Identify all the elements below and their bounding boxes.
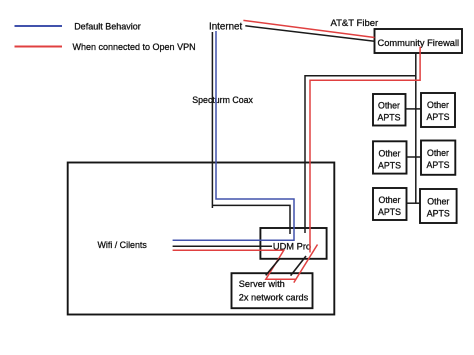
wire: red firewall to UDM/server vertical (310, 47, 420, 253)
box: Other APTS row2 right (421, 141, 455, 175)
wire: red diagonal server to firewall riser (294, 245, 318, 283)
legend line: When connected to Open VPN (red) (15, 46, 63, 48)
box: Other APTS row1 left (373, 94, 406, 126)
svg-text:Internet: Internet (209, 22, 243, 33)
house boundary rectangle (68, 163, 335, 315)
svg-text:Other: Other (427, 197, 449, 207)
wire: black firewall to Other APTS chain vertical (415, 53, 417, 203)
svg-text:Other: Other (378, 195, 400, 205)
wire: red VPN path WiFi clients to server to firewall diagonal (173, 250, 296, 279)
box U1: Community Firewall (375, 29, 463, 53)
svg-text:APTS: APTS (378, 113, 401, 123)
svg-text:APTS: APTS (427, 160, 450, 170)
wire: connector APTS row1 (406, 108, 422, 110)
svg-text:2x network cards: 2x network cards (239, 293, 309, 303)
svg-text:Other: Other (427, 100, 449, 110)
wire: black diagonal UDM to server card 1 (266, 258, 280, 275)
wire: black coax elbow to UDM Pro top (212, 205, 290, 234)
legend line: Default Behavior (blue) (15, 25, 63, 27)
box: Other APTS row1 right (421, 93, 455, 127)
wire: blue default path Internet to UDM to WiFi clients (173, 31, 294, 240)
svg-text:When connected to Open VPN: When connected to Open VPN (73, 42, 196, 52)
box: Other APTS row3 right (420, 189, 457, 223)
svg-text:Wifi / Cilents: Wifi / Cilents (98, 240, 148, 250)
box: UDM Pro (260, 228, 326, 259)
wire: red AT&T fiber Internet to firewall (243, 20, 374, 37)
svg-text:Server with: Server with (239, 279, 285, 289)
wire: connector APTS row3 (407, 202, 421, 204)
wire: black WiFi clients to UDM Pro (173, 245, 272, 247)
svg-text:Other: Other (378, 149, 400, 159)
wire: black diagonal UDM to server card 2 (291, 256, 306, 276)
svg-text:APTS: APTS (427, 209, 450, 219)
svg-text:Other: Other (427, 148, 449, 158)
svg-text:Other: Other (378, 101, 400, 111)
box: Server with 2x network cards (232, 273, 313, 308)
svg-text:APTS: APTS (427, 112, 450, 122)
box: Other APTS row3 left (373, 188, 407, 220)
svg-text:Default Behavior: Default Behavior (74, 21, 141, 31)
svg-text:Specturm Coax: Specturm Coax (192, 95, 253, 105)
svg-text:Community Firewall: Community Firewall (377, 38, 459, 48)
svg-text:AT&T Fiber: AT&T Fiber (331, 18, 379, 29)
wire: black AT&T fiber Internet to firewall (245, 26, 374, 42)
wire: black coax Internet to UDM Pro (vertical with overshoot) (211, 32, 213, 208)
box: Other APTS row2 left (373, 141, 407, 173)
svg-text:APTS: APTS (378, 161, 401, 171)
svg-text:APTS: APTS (378, 207, 401, 217)
wire: connector APTS row2 (407, 156, 422, 158)
wire: black firewall branch to UDM Pro (305, 76, 416, 233)
